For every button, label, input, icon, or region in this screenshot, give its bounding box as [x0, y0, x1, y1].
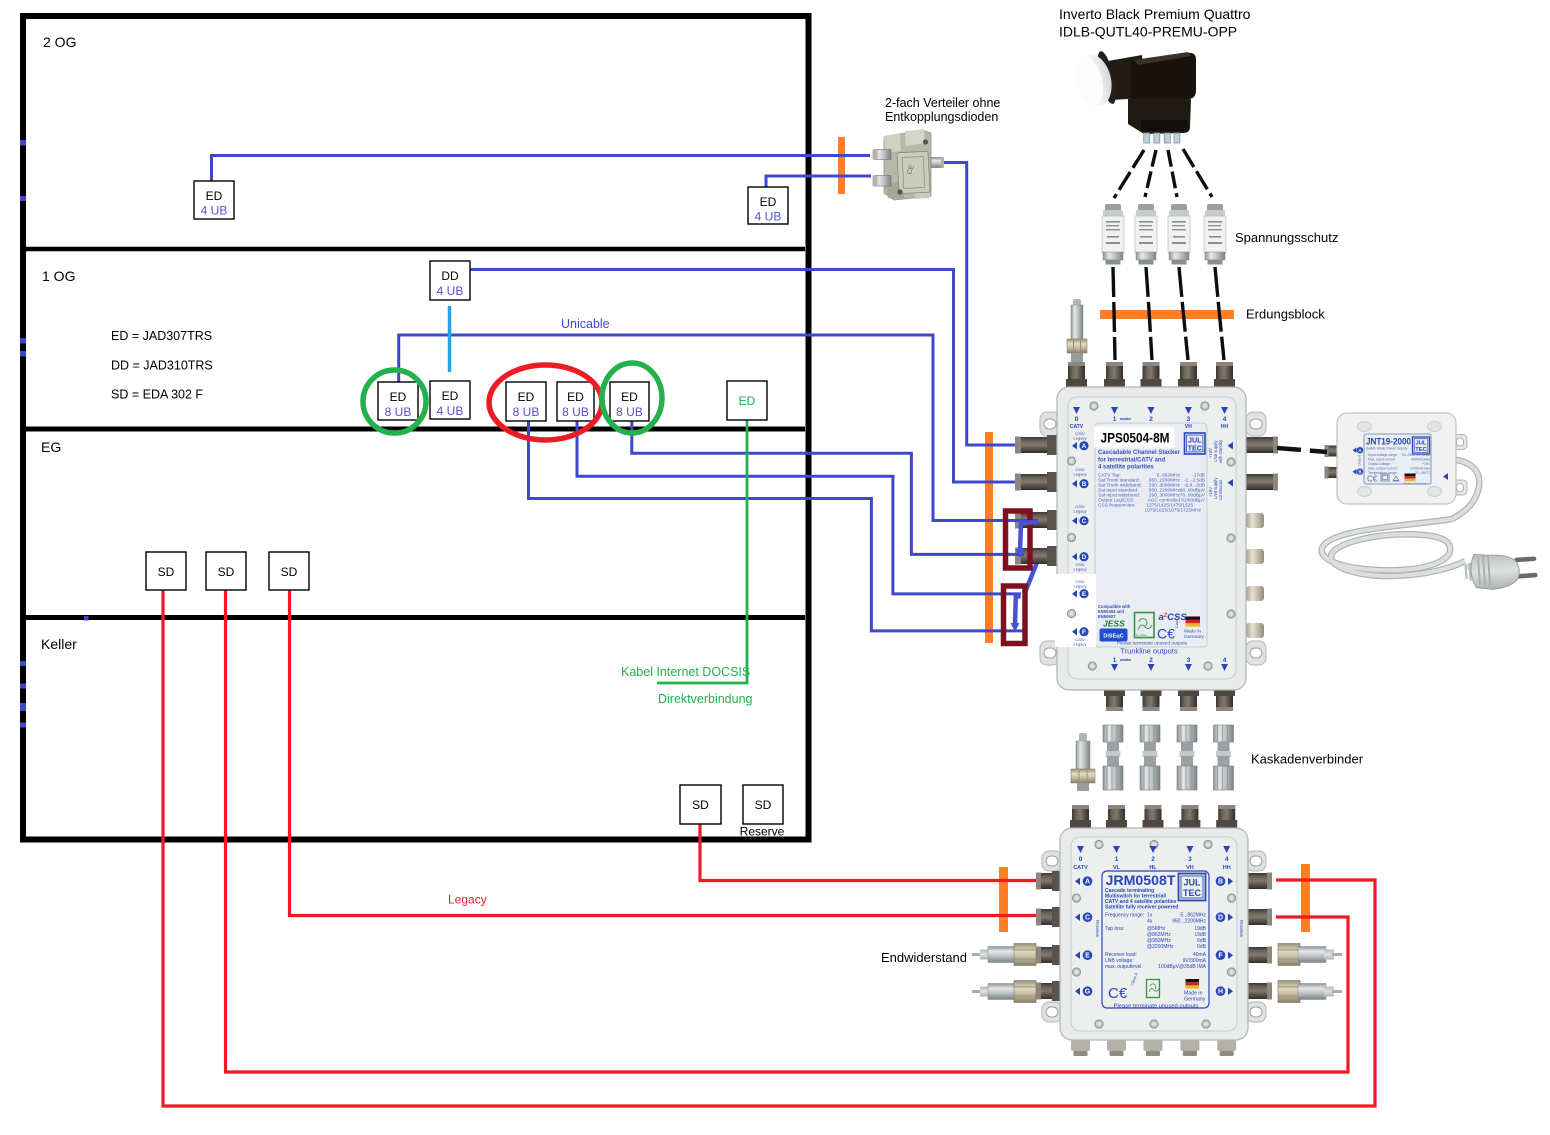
svg-text:by Jultec: by Jultec — [1136, 633, 1148, 637]
svg-text:8 UB: 8 UB — [513, 405, 540, 419]
svg-text:1: 1 — [1113, 416, 1117, 423]
svg-text:100dBµV@35dB IMA: 100dBµV@35dB IMA — [1158, 964, 1206, 970]
svg-text:Germany: Germany — [1184, 997, 1206, 1003]
svg-text:JNT19-2000: JNT19-2000 — [1366, 437, 1411, 447]
svg-text:Switch Mode Power Supply: Switch Mode Power Supply — [1366, 447, 1408, 451]
svg-text:ED: ED — [567, 390, 584, 404]
svg-text:VH: VH — [1185, 424, 1192, 430]
svg-text:SD: SD — [755, 798, 772, 812]
svg-text:Max. input current:: Max. input current: — [1368, 458, 1396, 462]
svg-text:4 UB: 4 UB — [437, 404, 464, 418]
svg-text:90..264V 50..60Hz: 90..264V 50..60Hz — [1402, 453, 1430, 457]
svg-text:B: B — [1218, 879, 1223, 886]
svg-text:4x: 4x — [1147, 919, 1153, 925]
svg-text:1575/1625/1675/1725MHz: 1575/1625/1675/1725MHz — [1144, 508, 1201, 514]
svg-text:Frequency range:: Frequency range: — [1105, 913, 1144, 919]
svg-text:3: 3 — [1188, 856, 1192, 863]
svg-text:Made in: Made in — [1184, 629, 1201, 635]
svg-text:Output: Output — [1358, 455, 1362, 466]
svg-text:4 UB: 4 UB — [755, 210, 782, 224]
svg-text:Input voltage range:: Input voltage range: — [1368, 453, 1398, 457]
svg-text:E: E — [1085, 953, 1090, 960]
svg-text:VH: VH — [1186, 865, 1194, 871]
svg-text:Erdungsblock: Erdungsblock — [1246, 307, 1325, 322]
svg-text:Max. output current:: Max. output current: — [1368, 467, 1398, 471]
svg-text:400mA peak: 400mA peak — [1411, 458, 1430, 462]
svg-text:4: 4 — [1223, 657, 1227, 664]
svg-text:4 UB: 4 UB — [437, 284, 464, 298]
svg-text:JUL: JUL — [1416, 441, 1427, 447]
svg-text:Output voltage:: Output voltage: — [1368, 462, 1391, 466]
svg-text:Made in Germany: Made in Germany — [1404, 482, 1427, 486]
svg-text:ED: ED — [739, 394, 756, 408]
svg-text:C: C — [1082, 518, 1087, 525]
svg-text:2: 2 — [1149, 416, 1153, 423]
svg-text:Legacy: Legacy — [448, 893, 487, 907]
svg-text:Legacy: Legacy — [1074, 567, 1087, 572]
svg-text:ED = JAD307TRS: ED = JAD307TRS — [111, 329, 212, 343]
svg-text:ED: ED — [390, 390, 407, 404]
svg-text:C€: C€ — [1367, 475, 1378, 484]
svg-text:Tap loss:: Tap loss: — [1105, 926, 1125, 932]
svg-text:Please terminate unused output: Please terminate unused outputs — [1114, 1004, 1199, 1010]
svg-text:1: 1 — [1113, 657, 1117, 664]
svg-text:Inverto Black Premium Quattro: Inverto Black Premium Quattro — [1059, 6, 1251, 22]
svg-text:IDLB-QUTL40-PREMU-OPP: IDLB-QUTL40-PREMU-OPP — [1059, 24, 1237, 40]
svg-text:Class A: Class A — [1175, 615, 1179, 628]
svg-text:JPS0504-8M: JPS0504-8M — [1101, 430, 1170, 446]
svg-text:0: 0 — [1079, 856, 1083, 863]
svg-text:D: D — [1082, 554, 1087, 561]
svg-text:Endwiderstand: Endwiderstand — [881, 950, 967, 965]
svg-text:0dB: 0dB — [1197, 944, 1207, 950]
svg-text:Direktverbindung: Direktverbindung — [658, 692, 753, 706]
svg-text:CATV: CATV — [1073, 865, 1088, 871]
svg-text:C€: C€ — [1157, 626, 1175, 642]
svg-text:ED: ED — [206, 189, 223, 203]
svg-text:with standby: with standby — [1218, 439, 1223, 463]
svg-text:Cascadable Channel Stacker: Cascadable Channel Stacker — [1098, 450, 1181, 456]
svg-text:Receiver: Receiver — [1239, 920, 1244, 938]
svg-text:DiSEqC: DiSEqC — [1103, 634, 1123, 640]
svg-text:Reserve: Reserve — [740, 825, 785, 839]
svg-text:TEC: TEC — [1188, 444, 1202, 453]
svg-text:CATV: CATV — [1070, 424, 1084, 430]
svg-text:TEC: TEC — [1183, 888, 1202, 898]
svg-text:B: B — [1082, 481, 1087, 488]
svg-text:A: A — [1082, 443, 1087, 450]
svg-text:HH: HH — [1221, 424, 1229, 430]
svg-text:1: 1 — [1115, 856, 1119, 863]
svg-text:SD: SD — [218, 565, 235, 579]
svg-text:Satellite fully receiver power: Satellite fully receiver powered — [1105, 905, 1178, 911]
svg-text:8 UB: 8 UB — [385, 405, 412, 419]
svg-text:SD: SD — [692, 798, 709, 812]
svg-text:4: 4 — [1225, 856, 1229, 863]
svg-text:Unicable: Unicable — [561, 317, 610, 331]
svg-text:+19V: +19V — [1422, 462, 1431, 466]
svg-text:F: F — [1218, 953, 1223, 960]
svg-text:JUL: JUL — [1183, 878, 1201, 888]
svg-text:G: G — [1085, 989, 1091, 996]
svg-text:DD: DD — [441, 269, 459, 283]
svg-text:ED: ED — [442, 389, 459, 403]
svg-text:Trunkline outputs: Trunkline outputs — [1120, 647, 1178, 656]
svg-text:Germany: Germany — [1184, 634, 1204, 640]
svg-text:8 UB: 8 UB — [562, 405, 589, 419]
svg-text:2: 2 — [1149, 657, 1153, 664]
svg-text:ED: ED — [760, 195, 777, 209]
svg-text:-20..+50°C: -20..+50°C — [1414, 471, 1431, 475]
svg-text:D: D — [1218, 915, 1223, 922]
svg-text:Legacy: Legacy — [1074, 584, 1087, 589]
svg-text:VL: VL — [1113, 865, 1121, 871]
svg-text:4: 4 — [1223, 416, 1227, 423]
svg-text:Keller: Keller — [41, 636, 77, 652]
svg-text:ED: ED — [518, 390, 535, 404]
svg-text:ED: ED — [621, 390, 638, 404]
svg-text:DD = JAD310TRS: DD = JAD310TRS — [111, 359, 213, 373]
svg-text:JRM0508T: JRM0508T — [1106, 872, 1176, 888]
svg-text:for terrestrial/CATV and: for terrestrial/CATV and — [1098, 457, 1166, 463]
svg-text:3: 3 — [1187, 416, 1191, 423]
svg-text:Legacy: Legacy — [1074, 436, 1087, 441]
svg-text:2-fach Verteiler ohne: 2-fach Verteiler ohne — [885, 96, 1000, 110]
svg-text:F: F — [1082, 629, 1086, 636]
svg-text:E: E — [1082, 591, 1087, 598]
svg-text:EG: EG — [41, 439, 61, 455]
svg-text:SD = EDA 302 F: SD = EDA 302 F — [111, 388, 203, 402]
svg-text:1 OG: 1 OG — [42, 268, 75, 284]
svg-text:2000mA max: 2000mA max — [1410, 467, 1430, 471]
svg-text:max. outputlevel: max. outputlevel — [1105, 964, 1141, 970]
svg-text:2 OG: 2 OG — [43, 34, 76, 50]
svg-text:@2200MHz: @2200MHz — [1147, 944, 1174, 950]
svg-text:Legacy: Legacy — [1074, 509, 1087, 514]
svg-text:JESS: JESS — [1103, 619, 1125, 629]
svg-text:8 UB: 8 UB — [616, 405, 643, 419]
svg-text:H: H — [1218, 989, 1223, 996]
svg-text:awake: awake — [1120, 658, 1131, 662]
svg-text:Legacy: Legacy — [1074, 472, 1087, 477]
svg-text:Kaskadenverbinder: Kaskadenverbinder — [1251, 752, 1364, 767]
svg-text:HH: HH — [1223, 865, 1231, 871]
svg-text:HL: HL — [1149, 865, 1157, 871]
svg-text:Legacy: Legacy — [1074, 642, 1087, 647]
svg-text:a2CSS: a2CSS — [1159, 612, 1188, 623]
svg-text:2: 2 — [1151, 856, 1155, 863]
svg-text:0: 0 — [1075, 416, 1079, 423]
svg-text:4 UB: 4 UB — [201, 204, 228, 218]
svg-text:SD: SD — [281, 565, 298, 579]
svg-text:A: A — [1085, 879, 1090, 886]
svg-text:Kabel Internet DOCSIS: Kabel Internet DOCSIS — [621, 665, 750, 679]
svg-text:3: 3 — [1187, 657, 1191, 664]
svg-text:continuous: continuous — [1218, 480, 1223, 500]
svg-text:CSS frequencies:: CSS frequencies: — [1098, 503, 1135, 509]
svg-text:C: C — [1085, 915, 1090, 922]
svg-text:4 satellite polarities: 4 satellite polarities — [1098, 465, 1154, 471]
svg-text:C€: C€ — [1108, 985, 1128, 1002]
svg-text:awake: awake — [1120, 417, 1131, 421]
svg-text:Entkopplungsdioden: Entkopplungsdioden — [885, 110, 998, 124]
svg-text:Spannungsschutz: Spannungsschutz — [1235, 230, 1338, 245]
svg-text:950...2200MHz: 950...2200MHz — [1172, 919, 1206, 925]
svg-text:Receiver: Receiver — [1095, 920, 1100, 938]
svg-text:SD: SD — [158, 565, 175, 579]
